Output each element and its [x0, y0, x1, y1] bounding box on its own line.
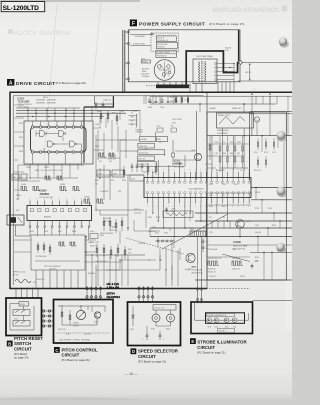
heavy wire along F box right edge [238, 30, 240, 61]
capacitor C210 [142, 331, 148, 341]
waveform row D201 [208, 258, 222, 273]
wire AC mains vertical bus [123, 30, 127, 92]
extra junction dots [29, 139, 160, 260]
VR501 box [19, 302, 29, 307]
resistor box RA301 [12, 174, 19, 180]
waveform W307 [45, 176, 51, 180]
capacitor C225 [251, 261, 259, 269]
label C219 [165, 207, 175, 213]
wire IC302 riser links [33, 121, 82, 164]
wire fuse block drops [158, 82, 182, 85]
transistor Q203 [186, 253, 203, 274]
connector pins F box left edge [127, 31, 129, 80]
IC301 bottom pins [148, 198, 250, 204]
IC302 TC4011BP label [18, 97, 33, 108]
wire AC neutral out [238, 80, 292, 82]
pitch control box [54, 300, 114, 344]
label C312 pair [156, 126, 176, 132]
IC304 pins [29, 199, 90, 228]
section header C PITCH CONTROL CIRCUIT [54, 347, 98, 362]
waveform W308 [57, 176, 63, 180]
IC301 pin number row bottom [147, 206, 250, 208]
filter box FL302 [112, 170, 124, 177]
filter box FL301 [97, 170, 110, 177]
junction diamond [239, 61, 243, 65]
drive circuit main box inner line [13, 96, 203, 285]
waveform W304 [73, 187, 80, 191]
capacitor C211 [159, 331, 165, 341]
binder hole ball 4 [276, 243, 285, 252]
pitch pot VR201 [73, 310, 86, 327]
label 4069UBP row [36, 97, 56, 105]
label IC201 AN6680 [174, 161, 185, 169]
waveform W303 [60, 184, 67, 191]
IC301 AN6680 DIP body [144, 178, 251, 198]
section header A DRIVE CIRCUIT [7, 79, 86, 87]
wire drive to D connectors [138, 286, 154, 302]
heavy mains wire [186, 51, 239, 85]
fuse F601 [156, 36, 176, 42]
IC302 gate 1 [40, 131, 48, 137]
label column 0.01u [90, 231, 104, 248]
wire C extra [57, 306, 110, 336]
strobe illuminator box [191, 302, 253, 334]
IC304 inner pin boxes [30, 209, 86, 219]
section header E STROBE ILLUMINATOR CIRCUIT [190, 338, 247, 354]
waveform W305 [84, 197, 91, 204]
capacitor C602 0.0056 630V [130, 44, 151, 46]
wire bus y104 [150, 103, 277, 105]
right box component columns [209, 96, 277, 278]
resistor box RA302 [21, 174, 27, 180]
ball shadows [277, 41, 289, 253]
wire drive to C connectors [85, 286, 137, 300]
section header B PITCH RESET SWITCH CIRCUIT [7, 336, 44, 359]
label speed curve [13, 271, 36, 285]
strobe unit label strip [206, 313, 234, 316]
wire AC line out [242, 62, 292, 64]
cap cluster left of IC301 [130, 163, 144, 181]
inner vertical partition [195, 111, 197, 180]
wire heavy supply trace [84, 96, 114, 163]
label AC 120V 60Hz [141, 67, 150, 78]
wire IC301 top risers [158, 128, 249, 172]
IC302 gate 3 [48, 141, 56, 147]
junction dots [85, 94, 280, 254]
section header D SPEED SELECTOR CIRCUIT [131, 348, 179, 363]
IC304 DIP body [27, 206, 92, 221]
wire bus lines right [150, 136, 292, 301]
wire D internals [133, 306, 171, 331]
speed control sub box [207, 112, 286, 280]
label lamp unit part no [218, 329, 235, 333]
lamp D701 [207, 318, 212, 328]
connector J301 black bar [156, 85, 189, 89]
binder hole ball 2 [277, 131, 286, 140]
oscillator block stack [137, 137, 168, 167]
B-C connector circles [42, 310, 54, 327]
supply rail labels +30V [129, 114, 137, 128]
pitch adj waveform box [217, 113, 260, 136]
label 0.1uF 50V row [100, 191, 122, 193]
binder hole ball 3 [277, 187, 286, 196]
tiny labels drive box [16, 97, 182, 281]
capacitor column C223 [202, 238, 209, 252]
speed selector box [128, 302, 181, 346]
wire left bus down [16, 225, 31, 236]
component drops from top bus [149, 96, 189, 103]
switch S201 [151, 310, 160, 331]
power supply circuit box [128, 30, 240, 82]
IC301 inner pin stubs top row [146, 178, 250, 184]
title box SL-1200LTD [1, 2, 45, 12]
drive circuit main box outer [10, 92, 207, 288]
wire pitch box drops [36, 270, 78, 289]
wire lower mesh [85, 237, 202, 287]
wire drive to B connectors [16, 288, 38, 299]
resistor ladder center [123, 95, 188, 178]
IC301 pin number row top [147, 170, 250, 172]
resistor cluster R330 [100, 217, 123, 235]
transistor Q201 [191, 150, 202, 161]
resistor cluster R310 [97, 111, 118, 125]
lamp D703 [224, 318, 229, 328]
wire diagonal jumper 2 [222, 254, 250, 262]
fuse F602 [156, 42, 177, 48]
diode D201 [130, 310, 134, 331]
connector ribbon J202 [190, 229, 207, 237]
IC302 gate loop [31, 127, 87, 152]
wire extra verticals [96, 120, 126, 160]
bold label 25T04 FBJ20312 [0, 0, 1, 1]
resistor network R204-R208 [215, 136, 249, 172]
transistor Q204 [94, 312, 101, 324]
binder hole ball 1 [279, 37, 288, 46]
dashed link D to E [157, 288, 250, 290]
fuse block dashed box [151, 33, 179, 52]
wire osc links [120, 129, 185, 166]
voltage selector plug [154, 60, 175, 81]
wire IC302 top interconnect [16, 108, 140, 121]
label 33/45 box [153, 305, 176, 311]
capacitor C601 0.0056/630V [130, 34, 153, 39]
waveform W302 [33, 187, 40, 191]
operation panel frame corner [250, 112, 292, 180]
wire E internals [195, 302, 249, 320]
IC302 gate array box [24, 121, 93, 164]
label row top right drive [148, 98, 186, 104]
label FBJ20312 bold [107, 282, 121, 299]
ghost smudge right top [248, 88, 260, 101]
power transformer T601 [193, 47, 232, 84]
resistor cluster R340 [95, 244, 126, 263]
switch S202 [166, 310, 175, 331]
connector row JA02 [155, 240, 175, 242]
waveform row D202 [232, 258, 243, 271]
IC302 inner wires [36, 131, 82, 153]
IC302 gate 4 [70, 141, 77, 147]
reset switch S501 [13, 310, 30, 327]
wire diagonal jumper [162, 214, 228, 249]
pitch control sub box [31, 235, 85, 270]
label 0.1u50V [103, 218, 118, 232]
wire mesh drive area [14, 96, 280, 287]
primary connector box [156, 50, 176, 57]
wire B internals [10, 304, 34, 331]
IC301 inner pin stubs bottom row [146, 188, 250, 198]
dashed link J301 [146, 85, 190, 87]
connector pins to E box [196, 280, 202, 303]
waveform W310 [99, 153, 105, 163]
dashed strobe feed [126, 238, 184, 254]
IC301 top pins [148, 172, 250, 178]
strobe lamp unit box [206, 313, 245, 324]
capacitor C304 [95, 96, 114, 107]
wire transformer secondary drops [190, 63, 235, 92]
wire main top bus [150, 92, 292, 96]
resistor R601 fuse [141, 58, 150, 63]
resistor R501 [58, 305, 65, 331]
wire C internals [58, 305, 105, 325]
lamp D702 [214, 318, 219, 328]
wire IC301 bottom drops [152, 204, 228, 238]
section header F POWER SUPPLY CIRCUIT [130, 20, 245, 28]
lamp D704 [232, 318, 237, 328]
waveform W306 [97, 199, 104, 203]
inductor L301 [155, 211, 193, 235]
transformer secondary pins [215, 63, 234, 81]
motor connector Q202 [236, 220, 250, 238]
pitch sub box parts [35, 242, 80, 261]
wire grid upper drive [14, 96, 144, 136]
resistor column left of Q201 [205, 136, 212, 166]
waveform W311 [109, 153, 115, 163]
IC302 pin circles bottom [31, 151, 83, 154]
mid horizontal wires right box [207, 96, 292, 257]
IC302 gate 2 [59, 131, 66, 137]
left mid wires [14, 160, 180, 280]
label A-DDM motor [233, 241, 248, 251]
IC302 pin circles top [31, 126, 83, 129]
IC304 AN6884 label [40, 189, 54, 199]
dimension arrow AC IN [246, 63, 252, 81]
waveform W301 [21, 184, 28, 191]
trimmer VR301 [7, 215, 24, 225]
pitch reset switch box [6, 298, 42, 336]
